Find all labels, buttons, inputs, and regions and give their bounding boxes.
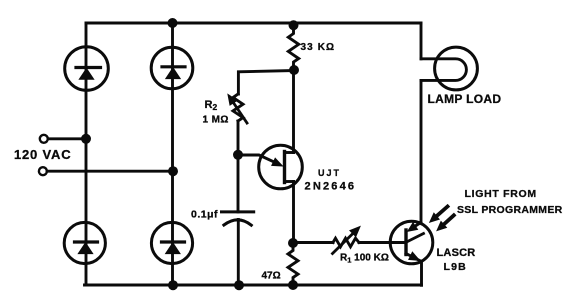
LASCR anode arrow into bar	[415, 223, 421, 227]
wire top rail down to lamp	[420, 23, 423, 59]
svg-text:L9B: L9B	[444, 261, 467, 273]
node junction dot (R2 / capacitor / UJT emitter)	[233, 150, 243, 160]
node junction dot (B1 / R1 / 47 ohm)	[288, 238, 298, 248]
wire left bridge column	[85, 23, 88, 285]
svg-text:2N2646: 2N2646	[305, 181, 357, 193]
diode D3 (bridge lower left)	[64, 222, 105, 263]
wire second bridge column	[171, 23, 174, 285]
svg-text:SSL PROGRAMMER: SSL PROGRAMMER	[457, 204, 563, 216]
UJT base bar	[283, 152, 286, 183]
wire 33K bottom to R2 top	[238, 71, 294, 95]
node junction dot (33K bottom)	[289, 65, 299, 75]
svg-text:LIGHT FROM: LIGHT FROM	[465, 188, 537, 200]
lamp filament loop	[421, 59, 466, 81]
resistor 33 K (zigzag)	[288, 25, 298, 69]
light arrow 2 (from SSL programmer)	[437, 215, 454, 230]
capacitor C (0.1uf) top lead	[237, 155, 240, 212]
svg-text:LAMP LOAD: LAMP LOAD	[428, 92, 502, 106]
wire R2 bottom to emitter node	[237, 121, 240, 155]
node junction dot (terminal / left column)	[81, 134, 91, 144]
node junction dot (33K top / top rail)	[289, 20, 299, 30]
svg-text:LASCR: LASCR	[437, 247, 476, 259]
capacitor bottom plate (curved)	[224, 220, 251, 225]
R2 wiper arrow	[228, 95, 247, 124]
lamp load	[421, 23, 477, 223]
svg-text:1 MΩ: 1 MΩ	[203, 115, 229, 126]
resistor 47 ohm (zigzag)	[288, 243, 298, 285]
terminal (120 VAC top)	[40, 135, 48, 143]
svg-text:0.1μf: 0.1μf	[191, 209, 218, 221]
UJT base-2 lead	[285, 151, 294, 154]
diode D2 (bridge upper right)	[151, 47, 193, 89]
wire bottom rail	[85, 284, 422, 287]
svg-text:47Ω: 47Ω	[262, 271, 281, 282]
node junction dot (second column / bottom rail)	[168, 280, 178, 290]
svg-text:120 VAC: 120 VAC	[14, 147, 71, 162]
diode D1 (bridge upper left)	[65, 47, 109, 91]
light arrow 1 (from SSL programmer)	[430, 207, 448, 223]
wire top rail	[86, 22, 421, 25]
svg-text:33 KΩ: 33 KΩ	[301, 42, 336, 53]
wire R1 to LASCR gate	[359, 241, 406, 244]
LASCR cathode lead with arrow	[406, 254, 422, 286]
diode D4 (bridge lower right)	[151, 222, 192, 263]
svg-text:UJT: UJT	[318, 168, 341, 178]
node junction dot (terminal / second column)	[168, 166, 178, 176]
LASCR cathode bar	[404, 230, 407, 255]
terminal (120 VAC bottom)	[39, 167, 47, 175]
R1 wiper arrow	[333, 227, 361, 254]
UJT Q1 2N2646	[238, 145, 302, 189]
resistor R1 100K (zigzag)	[333, 238, 359, 247]
node junction dot (47 ohm / bottom rail)	[288, 280, 298, 290]
node junction dot (second column / top rail)	[168, 18, 178, 28]
capacitor bottom lead	[237, 220, 240, 286]
wire bottom terminal to second column	[47, 170, 173, 173]
wire top terminal to left column	[48, 137, 86, 140]
resistor R2 (zigzag)	[233, 94, 243, 121]
wire UJT base-1 down to 47 ohm node	[292, 182, 295, 244]
wire 33K node down to UJT base-2	[292, 70, 295, 153]
LASCR anode lead	[406, 234, 424, 243]
LASCR Q2 L9B	[390, 221, 433, 285]
node junction dot (capacitor / bottom rail)	[234, 280, 244, 290]
capacitor top plate	[222, 210, 254, 213]
UJT emitter lead with arrow	[238, 155, 274, 162]
UJT base-1 lead	[285, 180, 294, 183]
lamp envelope circle	[435, 47, 478, 90]
wire 47 ohm node to R1	[293, 241, 333, 244]
wire lamp down to LASCR anode	[420, 80, 423, 222]
